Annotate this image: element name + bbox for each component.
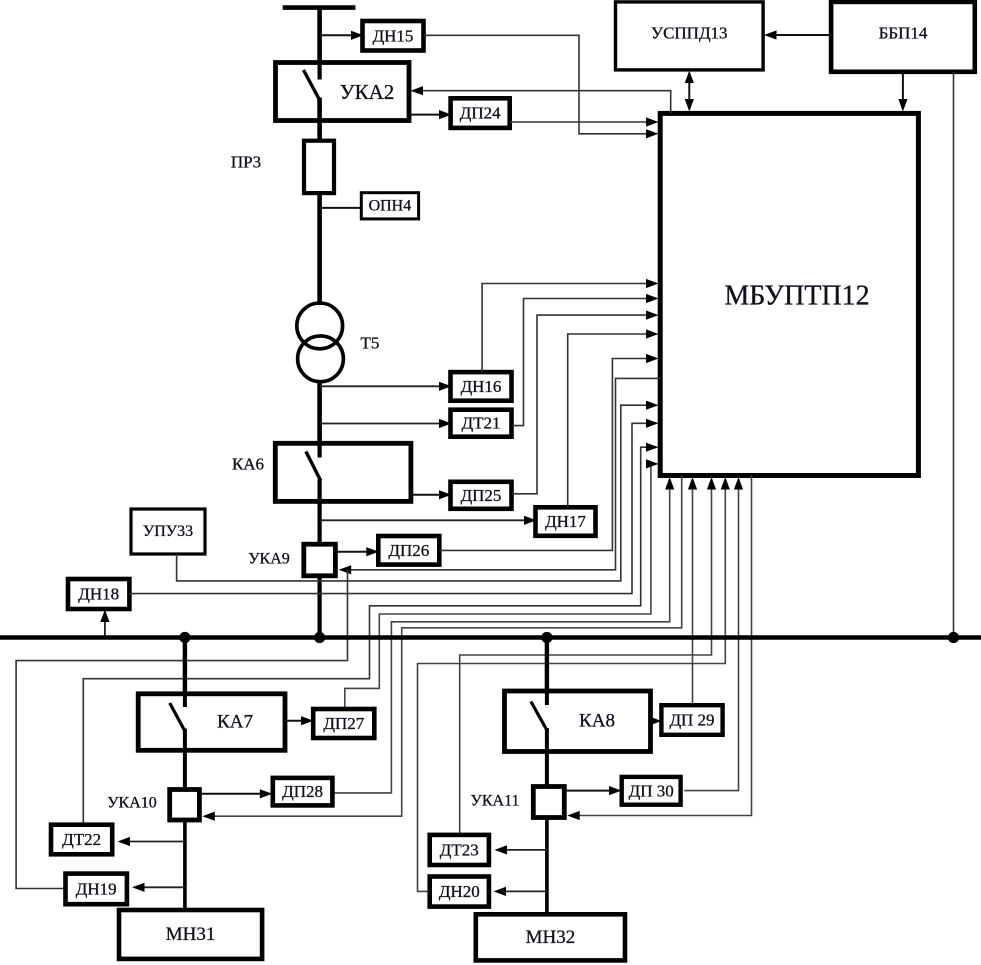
wire МБУПТП12 to УКА9 with arrow xyxy=(339,378,661,574)
svg-text:ДН16: ДН16 xyxy=(461,377,502,396)
wire УКА10 to МН31 xyxy=(183,820,187,912)
wire fuse to transformer xyxy=(317,193,322,305)
wire КА8 to УКА11 xyxy=(545,728,549,788)
fuse ПР3 xyxy=(304,141,334,193)
wire УКА2 to fuse ПР3 xyxy=(317,98,322,143)
svg-text:ПР3: ПР3 xyxy=(231,153,261,172)
svg-text:УКА9: УКА9 xyxy=(248,551,290,568)
wire ДН15 output to МБУПТП12 xyxy=(423,35,658,138)
motor load МН31 xyxy=(119,910,262,959)
svg-text:ДН19: ДН19 xyxy=(76,879,117,898)
voltage sensor ДН20 xyxy=(430,877,489,907)
wire КА7 to ДП27 with arrow xyxy=(285,716,314,725)
position sensor ДП25 xyxy=(451,482,512,509)
transformer Т5 xyxy=(297,303,344,382)
wire УКА9 down to main busbar xyxy=(318,576,322,639)
wire ДТ22 output to МБУПТП12 xyxy=(83,443,658,825)
svg-text:ДТ22: ДТ22 xyxy=(62,830,101,849)
svg-text:ДП24: ДП24 xyxy=(460,104,501,123)
wire busbar tap to ДН18 with arrow xyxy=(100,610,109,638)
wire УПУ33 output to МБУПТП12 xyxy=(177,401,659,581)
wire УКА9 to ДП26 with arrow xyxy=(335,547,378,556)
svg-text:ДН20: ДН20 xyxy=(439,882,480,901)
wire ДТ23 output to МБУПТП12 bottom xyxy=(460,477,716,835)
wire ББП14 right feed down to busbar xyxy=(953,72,955,638)
wire МБУПТП12 to УКА11 with arrow xyxy=(567,476,751,821)
contactor КА6 switch blade xyxy=(306,443,321,480)
svg-text:Т5: Т5 xyxy=(361,334,380,353)
wire КА6 to ДП25 with arrow xyxy=(411,490,452,499)
wire tap to ДН16 with arrow xyxy=(320,382,452,391)
wire КА7 to УКА10 xyxy=(183,729,187,792)
main busbar xyxy=(0,635,981,639)
current sensor ДТ23 xyxy=(430,835,489,865)
wire ДН16 output to МБУПТП12 xyxy=(482,279,658,372)
wire МБУПТП12 to УКА10 with arrow xyxy=(202,476,681,821)
svg-text:УКА10: УКА10 xyxy=(107,795,157,812)
svg-text:КА6: КА6 xyxy=(232,455,264,474)
controller МБУПТП12 xyxy=(660,113,918,475)
svg-text:ДН18: ДН18 xyxy=(78,585,119,604)
wire tap to ДН15 with arrow xyxy=(320,31,364,40)
wire УСППД13 - МБУПТП12 double arrow xyxy=(685,71,694,112)
position sensor ДП26 xyxy=(378,536,439,565)
svg-text:ОПН4: ОПН4 xyxy=(369,197,412,214)
svg-text:ДП25: ДП25 xyxy=(461,486,502,505)
current sensor ДТ22 xyxy=(51,825,112,855)
svg-text:УПУ33: УПУ33 xyxy=(143,523,193,540)
wire tap to ДН17 with arrow xyxy=(320,516,537,525)
svg-text:УКА2: УКА2 xyxy=(340,80,395,104)
wire ДТ21 output to МБУПТП12 xyxy=(512,294,659,426)
actuator УКА10 xyxy=(170,790,200,821)
wire ББП14 to УСППД13 with arrow xyxy=(764,30,831,39)
voltage sensor ДН17 xyxy=(536,507,596,536)
voltage sensor ДН16 xyxy=(451,372,512,401)
wire tap to ДН20 with arrow xyxy=(494,887,547,896)
wire tap to ОПН4 xyxy=(320,207,362,209)
wire ДП26 output to МБУПТП12 xyxy=(439,354,658,551)
position sensor ДП27 xyxy=(313,709,374,738)
wire УКА2 to ДП24 with arrow xyxy=(409,110,452,119)
wire ДП24 output to МБУПТП12 xyxy=(510,117,659,126)
wire transformer to КА6 xyxy=(317,382,322,446)
svg-text:МБУПТП12: МБУПТП12 xyxy=(724,281,869,312)
svg-text:ДТ23: ДТ23 xyxy=(440,840,479,859)
svg-text:УКА11: УКА11 xyxy=(471,793,520,810)
wire ДН20 output to МБУПТП12 bottom xyxy=(418,477,730,891)
svg-text:ББП14: ББП14 xyxy=(879,24,928,43)
wire КА8 to ДП29 with arrow xyxy=(649,716,662,725)
breaker УКА2 xyxy=(276,63,410,121)
wire КА6 to УКА9 xyxy=(318,479,322,546)
motor load МН32 xyxy=(476,914,625,960)
svg-text:ДП28: ДП28 xyxy=(282,782,323,801)
wire ДП27 output to МБУПТП12 xyxy=(345,459,659,709)
svg-text:УСППД13: УСППД13 xyxy=(651,24,728,43)
wire ДН17 output to МБУПТП12 xyxy=(568,329,659,507)
wire ДП30 output to МБУПТП12 bottom xyxy=(684,477,743,791)
surge arrester ОПН4 xyxy=(361,193,418,219)
wire tap to ДТ22 with arrow xyxy=(118,837,185,846)
data transfer unit УСППД13 xyxy=(616,2,764,70)
wire ББП14 down to МБУПТП12 with arrow xyxy=(898,72,907,112)
breaker УКА2 switch blade xyxy=(304,64,320,100)
junction dot УКА9 feeder xyxy=(314,632,325,643)
svg-text:ДП 30: ДП 30 xyxy=(629,781,674,800)
power supply unit ББП14 xyxy=(831,2,975,72)
contactor КА6 xyxy=(275,443,411,501)
position sensor ДП24 xyxy=(451,98,510,128)
wire УКА11 to МН32 xyxy=(545,818,549,917)
wire ДН19 output joining УКА9 line xyxy=(16,570,347,889)
actuator УКА9 xyxy=(304,544,336,576)
junction dot КА8 feeder xyxy=(541,632,552,643)
wire feeder vertical: busbar to УКА2 xyxy=(317,8,322,64)
wire ДН18 output to МБУПТП12 xyxy=(129,419,658,594)
wire tap to ДТ23 with arrow xyxy=(495,845,547,854)
wire МБУПТП12 to УКА2 with arrow xyxy=(411,86,671,113)
wire busbar to КА7 xyxy=(183,638,187,696)
position sensor ДП29 xyxy=(661,705,722,735)
voltage sensor ДН15 xyxy=(363,21,424,51)
contactor КА8 xyxy=(505,691,651,752)
voltage sensor ДН18 xyxy=(68,579,129,609)
svg-text:ДТ21: ДТ21 xyxy=(462,414,501,433)
top supply busbar xyxy=(283,5,356,10)
wire ДП25 output to МБУПТП12 xyxy=(512,311,659,494)
voltage sensor ДН19 xyxy=(66,874,127,905)
contactor КА7 xyxy=(138,694,285,751)
svg-text:МН31: МН31 xyxy=(166,924,216,945)
contactor КА7 switch blade xyxy=(170,694,185,730)
contactor КА8 switch blade xyxy=(531,691,547,730)
svg-text:ДП27: ДП27 xyxy=(323,714,364,733)
svg-text:ДН15: ДН15 xyxy=(373,26,414,45)
wire busbar to КА8 xyxy=(545,638,549,694)
wire ДП29 output to МБУПТП12 bottom xyxy=(688,477,697,706)
wire ДП28 output to МБУПТП12 bottom xyxy=(332,477,674,793)
wire tap to ДН19 with arrow xyxy=(132,883,185,892)
svg-text:КА8: КА8 xyxy=(579,711,615,732)
junction dot КА7 feeder xyxy=(179,632,190,643)
actuator УКА11 xyxy=(533,787,564,818)
svg-text:КА7: КА7 xyxy=(217,712,253,733)
position sensor ДП28 xyxy=(273,778,333,806)
control unit УПУ33 xyxy=(131,509,205,554)
current sensor ДТ21 xyxy=(451,410,512,437)
svg-text:ДП 29: ДП 29 xyxy=(669,711,714,730)
wire УКА10 to ДП28 with arrow xyxy=(199,789,272,798)
wire tap to ДТ21 with arrow xyxy=(320,419,452,428)
wire УКА11 to ДП30 with arrow xyxy=(564,786,621,795)
junction dot ББП14 feed xyxy=(948,632,959,643)
svg-text:МН32: МН32 xyxy=(526,927,576,948)
svg-text:ДП26: ДП26 xyxy=(388,541,429,560)
position sensor ДП30 xyxy=(622,777,681,805)
svg-text:ДН17: ДН17 xyxy=(545,512,586,531)
